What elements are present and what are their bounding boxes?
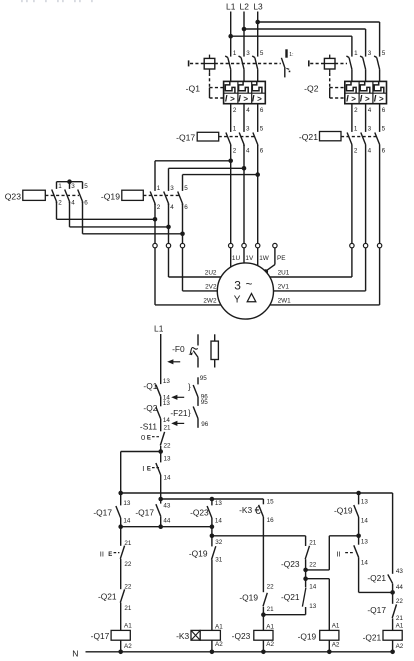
-Q17 pins 2 4 6 bbox=[233, 147, 264, 154]
svg-text:2: 2 bbox=[233, 147, 237, 154]
-Q2 thermal release pole 1 bbox=[347, 81, 357, 93]
svg-text:1: 1 bbox=[157, 185, 161, 192]
contactor coil -Q17 bbox=[111, 630, 130, 640]
svg-text:13: 13 bbox=[123, 500, 131, 507]
-Q2 trip linkage dashes bbox=[335, 63, 347, 65]
aux contact -Q21 43-44 bbox=[388, 574, 393, 592]
svg-text:13: 13 bbox=[164, 455, 172, 462]
svg-text:1: 1 bbox=[233, 126, 237, 133]
svg-text:>: > bbox=[257, 94, 262, 103]
aux contact -Q1 13-14 bbox=[156, 385, 161, 407]
wire to motor tap 2W2 bbox=[154, 248, 156, 305]
svg-text:22: 22 bbox=[267, 584, 275, 591]
position 0 actuator label bbox=[141, 433, 159, 442]
wire control L1 down bbox=[160, 334, 162, 384]
svg-text:1: 1 bbox=[233, 50, 237, 57]
aux contact -Q2 13-14 bbox=[156, 407, 161, 431]
wire -Q17 coil to N bbox=[120, 640, 122, 652]
svg-text:€: € bbox=[255, 505, 261, 517]
svg-text:-Q19: -Q19 bbox=[189, 549, 208, 559]
retain contact -Q23 21-22 bbox=[305, 536, 309, 570]
junction bus at -Q19 branch bbox=[356, 491, 361, 496]
svg-text:-Q19: -Q19 bbox=[298, 632, 317, 642]
wire L2 to -Q2 pole 3 bbox=[244, 28, 366, 30]
svg-text:II: II bbox=[100, 549, 104, 558]
junction feeder at main bbox=[158, 497, 163, 502]
svg-text:22: 22 bbox=[164, 442, 172, 449]
junction at 2U2 column bbox=[153, 217, 158, 222]
svg-text:21: 21 bbox=[124, 605, 132, 612]
wire L1 drop to -Q1 pole 1 bbox=[230, 12, 232, 57]
wire motor 2V1 to -Q21 out4 bbox=[274, 290, 366, 292]
wire L3 drop to -Q1 pole 5 bbox=[257, 12, 259, 57]
junction L2 branch bbox=[242, 27, 247, 32]
contactor coil -Q19 bbox=[320, 630, 339, 640]
svg-text:3: 3 bbox=[368, 50, 372, 57]
junction -Q17 out 2 bbox=[228, 159, 233, 164]
feeder corner to -K3 contact bbox=[262, 499, 264, 504]
svg-text:22: 22 bbox=[396, 598, 404, 605]
-Q19 pins 2 4 6 bbox=[157, 204, 189, 211]
svg-text:-Q23: -Q23 bbox=[190, 507, 209, 517]
junction -S11 out bbox=[158, 449, 163, 454]
junction N at -Q19 bbox=[327, 650, 332, 655]
contactor -Q17 coil box bbox=[197, 132, 219, 141]
svg-text:I: I bbox=[142, 464, 144, 473]
svg-text:4: 4 bbox=[368, 147, 372, 154]
svg-text:II: II bbox=[336, 549, 340, 558]
svg-text:A2: A2 bbox=[396, 643, 404, 650]
-Q1 linkage to release block bbox=[210, 73, 224, 98]
svg-text:14: 14 bbox=[215, 517, 223, 524]
svg-text:-K3: -K3 bbox=[176, 631, 189, 641]
-Q1 thermal release pole 5 bbox=[252, 81, 262, 93]
interlock contact -Q17 22-21 bbox=[392, 592, 396, 630]
circuit breaker -Q1 pole contacts bbox=[225, 56, 258, 81]
contactor -Q19 coil box bbox=[122, 190, 144, 200]
svg-text:32: 32 bbox=[215, 539, 223, 546]
svg-text:13: 13 bbox=[215, 500, 223, 507]
svg-text:1W: 1W bbox=[259, 255, 270, 262]
-Q2 thermal release pole 5 bbox=[374, 81, 384, 93]
overload contact -F21 95-96 bbox=[193, 407, 198, 428]
contactor -Q21 coil box bbox=[320, 132, 342, 141]
svg-text:14: 14 bbox=[361, 518, 369, 525]
svg-text:21: 21 bbox=[124, 540, 132, 547]
interlock contact -Q21 22-21 bbox=[120, 589, 124, 630]
svg-text:-Q17: -Q17 bbox=[135, 507, 154, 517]
-Q1 thermal release pole 3 bbox=[239, 81, 249, 93]
trip arrow to -Q2 bbox=[171, 421, 177, 426]
svg-text:Y: Y bbox=[234, 295, 241, 306]
faint page artifacts top left bbox=[21, 0, 93, 2]
Q23 link dash bbox=[45, 194, 79, 196]
wire to -Q19 pole 1 bbox=[155, 160, 231, 162]
wire -Q19 coil to N bbox=[328, 640, 330, 652]
-Q1 operator square bbox=[204, 55, 215, 73]
wire -Q17 pole4 down to motor 1V bbox=[243, 145, 245, 244]
svg-text:E: E bbox=[147, 436, 151, 442]
wire -Q23 branch down bbox=[211, 527, 213, 536]
position II actuator label bbox=[100, 549, 120, 558]
terminal circle PE bbox=[273, 243, 277, 247]
svg-text:1U: 1U bbox=[232, 255, 241, 262]
svg-text:2: 2 bbox=[354, 147, 358, 154]
svg-text:2: 2 bbox=[58, 200, 62, 207]
contactor coil -Q23 bbox=[254, 630, 273, 640]
circuit breaker -Q2 pole contacts bbox=[346, 56, 379, 81]
wire motor 2W1 to -Q21 out6 bbox=[270, 304, 380, 306]
junction L1 branch bbox=[228, 34, 233, 39]
svg-text:6: 6 bbox=[382, 147, 386, 154]
svg-text:2W1: 2W1 bbox=[278, 298, 292, 305]
terminal circle 2U1 bbox=[350, 243, 354, 247]
svg-text:5: 5 bbox=[260, 50, 264, 57]
svg-text:-Q17: -Q17 bbox=[93, 507, 112, 517]
feeder sub-rail bbox=[161, 498, 264, 500]
svg-text:14: 14 bbox=[123, 518, 131, 525]
junction row2 left bbox=[118, 524, 123, 529]
svg-text:95: 95 bbox=[201, 399, 209, 406]
neutral rail N bbox=[86, 651, 393, 653]
junction N at -Q21 bbox=[390, 650, 395, 655]
junction feeder at -Q23 branch bbox=[210, 497, 215, 502]
junction -Q17 out 4 bbox=[242, 166, 247, 171]
svg-text:4: 4 bbox=[246, 147, 250, 154]
svg-text:1V: 1V bbox=[245, 255, 254, 262]
terminal circle 2W1 bbox=[377, 243, 381, 247]
aux contact -Q23 13-14 bbox=[207, 499, 212, 527]
svg-text:3: 3 bbox=[368, 126, 372, 133]
svg-text:13: 13 bbox=[163, 378, 171, 385]
svg-text:6: 6 bbox=[260, 107, 264, 114]
-Q21 pins 1 3 5 bbox=[354, 126, 386, 133]
-Q17 pins 1 3 5 bbox=[233, 126, 264, 133]
wire to motor tap 2U2 bbox=[168, 248, 170, 277]
svg-text:14: 14 bbox=[309, 583, 317, 590]
svg-text:13: 13 bbox=[163, 400, 171, 407]
svg-text:3: 3 bbox=[71, 183, 75, 190]
svg-text:4: 4 bbox=[71, 200, 75, 207]
svg-text:4: 4 bbox=[246, 107, 250, 114]
junction retain upper bbox=[303, 568, 308, 573]
retain rail to -Q23 21-22 bbox=[212, 535, 306, 537]
selector switch -S11 position I contact 13-14 bbox=[156, 452, 161, 494]
Q23 pins 1 3 5 bbox=[58, 183, 88, 190]
svg-text:6: 6 bbox=[84, 200, 88, 207]
svg-text:}: } bbox=[188, 409, 191, 418]
svg-text:A2: A2 bbox=[332, 642, 340, 649]
Q23 star-point bridge bbox=[57, 182, 83, 189]
wire Q23 out6 to 2W2 column bbox=[82, 202, 84, 234]
svg-text:1: 1 bbox=[58, 183, 62, 190]
-Q17 pole wires from -Q1 bbox=[231, 104, 258, 132]
junction -Q21 coil feed bbox=[390, 590, 395, 595]
svg-text:4: 4 bbox=[170, 204, 174, 211]
-Q21 link dashes bbox=[341, 136, 377, 138]
svg-text:1: 1 bbox=[354, 50, 358, 57]
-Q21 main contacts bbox=[347, 133, 380, 244]
wire -Q21 coil to N bbox=[392, 640, 394, 652]
interlock contact -Q19 32-31 bbox=[212, 536, 216, 631]
Q23 pins 2 4 6 bbox=[58, 200, 88, 207]
svg-text:5: 5 bbox=[184, 185, 188, 192]
svg-text:44: 44 bbox=[396, 584, 404, 591]
wire 1W into motor bbox=[257, 248, 259, 266]
svg-text:3: 3 bbox=[246, 126, 250, 133]
svg-text:14: 14 bbox=[163, 417, 171, 424]
junction at 2W2 column bbox=[180, 232, 185, 237]
wire speed II to -Q21 column bbox=[359, 591, 393, 593]
wire -K3 coil to N bbox=[211, 640, 213, 652]
svg-text:>: > bbox=[365, 94, 370, 103]
svg-text:>: > bbox=[379, 94, 384, 103]
svg-text:4: 4 bbox=[368, 107, 372, 114]
svg-text:15: 15 bbox=[267, 498, 275, 505]
svg-text:-Q21: -Q21 bbox=[281, 592, 300, 602]
svg-text:2U2: 2U2 bbox=[205, 270, 217, 277]
junction retain lower bbox=[303, 576, 308, 581]
svg-text:43: 43 bbox=[163, 503, 171, 510]
svg-text:3: 3 bbox=[234, 278, 241, 292]
svg-text:}: } bbox=[188, 382, 191, 391]
contactor Q23 coil box bbox=[23, 190, 46, 200]
label II bbox=[336, 549, 354, 558]
wire L1 to -Q2 pole 1 bbox=[231, 35, 352, 37]
svg-text:L3: L3 bbox=[253, 2, 263, 12]
-Q1 release block bbox=[224, 81, 266, 103]
svg-text:-Q19: -Q19 bbox=[239, 593, 258, 603]
motor terminal circle left 1 bbox=[153, 243, 157, 247]
control circuit fuse bbox=[211, 334, 218, 367]
timer contact -K3 15-16 bbox=[259, 505, 264, 592]
svg-text:-Q21: -Q21 bbox=[98, 592, 117, 602]
svg-text:-S11: -S11 bbox=[140, 422, 157, 432]
svg-text:5: 5 bbox=[382, 126, 386, 133]
-Q1 trip linkage dashes bbox=[215, 63, 281, 65]
svg-text:43: 43 bbox=[396, 568, 404, 575]
svg-text:-Q23: -Q23 bbox=[281, 559, 300, 569]
terminal circle 1U bbox=[229, 243, 233, 247]
svg-text:>: > bbox=[230, 94, 235, 103]
svg-text:13: 13 bbox=[361, 539, 369, 546]
svg-text:L1: L1 bbox=[154, 324, 164, 334]
svg-text:2: 2 bbox=[233, 107, 237, 114]
-Q17 main contacts bbox=[226, 133, 258, 147]
-Q17 link dashes bbox=[219, 136, 255, 138]
-Q21 pole wires from -Q2 bbox=[352, 104, 380, 132]
motor text 3~ bbox=[234, 278, 252, 292]
svg-text:A1: A1 bbox=[215, 623, 223, 630]
-Q21 pins 2 4 6 bbox=[354, 147, 386, 154]
svg-text:3: 3 bbox=[170, 185, 174, 192]
junction at 2V2 column bbox=[166, 225, 171, 230]
terminal circle 1W bbox=[256, 243, 260, 247]
svg-text:21: 21 bbox=[309, 540, 317, 547]
svg-text:-Q21: -Q21 bbox=[367, 573, 386, 583]
svg-text:14: 14 bbox=[361, 559, 369, 566]
svg-text:E: E bbox=[147, 467, 151, 473]
motor M1 three-phase Dahlander bbox=[217, 263, 273, 319]
trip arrow to -Q1 bbox=[171, 395, 177, 400]
junction N at -Q17 bbox=[118, 650, 123, 655]
svg-text:22: 22 bbox=[309, 561, 317, 568]
wire -Q19 out4 down bbox=[168, 204, 170, 244]
svg-text:-K3: -K3 bbox=[239, 505, 252, 515]
selector -S11 position II contact 21-22 bbox=[120, 527, 124, 590]
-Q1 thermal release pole 1 bbox=[225, 81, 235, 93]
svg-text:2: 2 bbox=[354, 107, 358, 114]
wire to -Q19 pole 3 bbox=[169, 167, 245, 169]
wire -Q23 coil to N bbox=[262, 640, 264, 652]
wire -Q17 pole2 down to motor 1U bbox=[230, 145, 232, 244]
svg-text:1:: 1: bbox=[289, 52, 293, 58]
trip arrow to L1 bbox=[167, 359, 173, 364]
svg-text:-Q17: -Q17 bbox=[91, 631, 110, 641]
trip release contact I>> between -Q1 and -Q2 bbox=[281, 49, 293, 77]
svg-text:A1: A1 bbox=[396, 623, 404, 630]
-Q19 link dash bbox=[143, 194, 179, 196]
junction L3 branch bbox=[255, 20, 260, 25]
junction -Q23 coil feed bbox=[261, 612, 266, 617]
aux contact -Q17 13-14 (hold-in) bbox=[116, 493, 121, 527]
svg-text:A1: A1 bbox=[266, 623, 274, 630]
junction -Q19 aux out bbox=[356, 534, 361, 539]
Q23 main contacts bbox=[52, 190, 83, 204]
wire -Q19 out6 down bbox=[182, 204, 184, 244]
svg-text:2U1: 2U1 bbox=[278, 270, 290, 277]
svg-text:22: 22 bbox=[124, 561, 132, 568]
svg-text:6: 6 bbox=[260, 147, 264, 154]
svg-text:-Q17: -Q17 bbox=[176, 133, 195, 143]
wire PE to motor frame bbox=[266, 248, 275, 271]
wire to motor tap 2V2 bbox=[182, 248, 184, 291]
contact -Q21 14-13 bbox=[302, 579, 306, 615]
svg-text:-Q21: -Q21 bbox=[299, 132, 318, 142]
svg-text:N: N bbox=[72, 649, 78, 659]
svg-text:>: > bbox=[243, 94, 248, 103]
svg-text:44: 44 bbox=[163, 517, 171, 524]
svg-text:5: 5 bbox=[260, 126, 264, 133]
svg-text:0: 0 bbox=[141, 433, 145, 442]
overload contact -F0 95-96 bbox=[193, 377, 198, 406]
wire Q23 out4 to 2V2 column bbox=[69, 202, 71, 227]
-Q19 main contacts bbox=[150, 192, 182, 206]
position I actuator label bbox=[142, 464, 159, 473]
junction row2 right bbox=[210, 524, 215, 529]
wire branch to left rail bbox=[121, 451, 161, 453]
junction PE on motor bbox=[263, 269, 268, 274]
aux contact -Q19 13-14 bbox=[354, 493, 359, 536]
motor terminal circle left 2 bbox=[166, 243, 170, 247]
svg-text:31: 31 bbox=[215, 557, 223, 564]
junction N at -Q23 bbox=[261, 650, 266, 655]
svg-text:A1: A1 bbox=[332, 623, 340, 630]
-Q2 operator square bbox=[324, 55, 335, 73]
svg-text:A2: A2 bbox=[266, 641, 274, 648]
svg-text:Q23: Q23 bbox=[5, 192, 21, 202]
junction N at -K3 bbox=[210, 650, 215, 655]
svg-text:-Q1: -Q1 bbox=[186, 83, 201, 93]
terminal circle 1V bbox=[242, 243, 246, 247]
svg-text:-Q21: -Q21 bbox=[363, 632, 382, 642]
svg-text:E: E bbox=[108, 552, 112, 558]
svg-text:2: 2 bbox=[157, 204, 161, 211]
svg-text:21: 21 bbox=[164, 425, 172, 432]
junction row2 mid bbox=[158, 524, 163, 529]
terminal circle 2V1 bbox=[363, 243, 367, 247]
motor text Y delta bbox=[234, 294, 256, 306]
-Q19 pins 1 3 5 bbox=[157, 185, 189, 192]
wire Q23 out2 to 2U2 column bbox=[56, 202, 58, 220]
svg-text:-Q23: -Q23 bbox=[232, 631, 251, 641]
svg-text:13: 13 bbox=[309, 603, 317, 610]
wire -Q17 pole6 down to motor 1W bbox=[257, 145, 259, 244]
wire L2 drop to -Q1 pole 3 bbox=[243, 12, 245, 57]
timer flag box -K3 bbox=[191, 630, 200, 640]
selector switch -S11 position 0 contact 21-22 bbox=[160, 432, 164, 452]
-Q2 manual operator handle bbox=[309, 60, 325, 66]
svg-text:14: 14 bbox=[164, 475, 172, 482]
svg-text:-Q17: -Q17 bbox=[367, 605, 386, 615]
-Q2 thermal release pole 3 bbox=[360, 81, 370, 93]
svg-text:A2: A2 bbox=[215, 641, 223, 648]
wire motor 2U1 to -Q21 out2 bbox=[270, 276, 352, 278]
svg-text:>: > bbox=[351, 94, 356, 103]
control bus rail bbox=[121, 492, 393, 494]
svg-text:~: ~ bbox=[246, 279, 253, 291]
svg-text:2V1: 2V1 bbox=[278, 284, 290, 291]
aux contact -Q17 43-44 bbox=[156, 493, 161, 527]
svg-text:-Q19: -Q19 bbox=[334, 506, 353, 516]
svg-text:16: 16 bbox=[267, 517, 275, 524]
svg-text:2W2: 2W2 bbox=[203, 298, 217, 305]
svg-text:21: 21 bbox=[396, 615, 404, 622]
interlock rail row2 bbox=[121, 526, 212, 528]
wire to -Q19 pole 5 bbox=[183, 174, 258, 176]
svg-text:13: 13 bbox=[361, 499, 369, 506]
-Q2 release block bbox=[345, 81, 387, 103]
svg-text:-Q19: -Q19 bbox=[101, 192, 120, 202]
timer coil -K3 bbox=[200, 630, 220, 640]
wire -Q21 13 to -Q23 coil feed bbox=[263, 614, 305, 616]
right rail from bus bbox=[392, 493, 394, 574]
svg-text:A2: A2 bbox=[124, 643, 132, 650]
svg-text:6: 6 bbox=[184, 204, 188, 211]
motor terminal circle left 3 bbox=[180, 243, 184, 247]
link from -Q19 out to retain bbox=[306, 536, 359, 570]
svg-text:-F21: -F21 bbox=[170, 408, 188, 418]
svg-text:21: 21 bbox=[267, 606, 275, 613]
svg-text:-F0: -F0 bbox=[172, 344, 185, 354]
svg-text:-Q2: -Q2 bbox=[304, 83, 319, 93]
svg-text:2V2: 2V2 bbox=[205, 284, 217, 291]
link to -Q19 coil branch bbox=[306, 579, 330, 631]
svg-text:22: 22 bbox=[124, 584, 132, 591]
svg-text:3: 3 bbox=[246, 50, 250, 57]
svg-text:-Q1: -Q1 bbox=[143, 381, 157, 391]
interlock contact -Q19 22-21 bbox=[263, 593, 267, 615]
svg-text:6: 6 bbox=[382, 107, 386, 114]
contactor coil -Q21 bbox=[383, 630, 402, 640]
wire -Q19 out2 down bbox=[154, 204, 156, 244]
junction -Q17 out 6 bbox=[255, 172, 260, 177]
svg-text:5: 5 bbox=[382, 50, 386, 57]
fuse-release -F0 bbox=[189, 334, 199, 367]
junction Q23 star point bbox=[67, 179, 72, 184]
svg-text:PE: PE bbox=[277, 255, 286, 262]
contact speed II 13-14 bbox=[354, 536, 359, 593]
